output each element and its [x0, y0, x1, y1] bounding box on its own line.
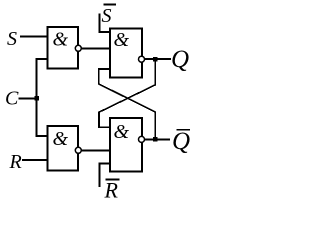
svg-text:&: &: [114, 29, 130, 51]
output bubble of G2: [75, 147, 81, 153]
output bubble of G1: [75, 45, 81, 51]
junction dot C net: [34, 96, 39, 101]
wire G4 output to Q-bar: [145, 138, 170, 140]
wire G2 output to G4 input: [82, 149, 111, 151]
wire C net vertical with branches to G1 and G2: [37, 59, 48, 136]
svg-text:&: &: [53, 128, 69, 150]
svg-text:Q: Q: [172, 128, 190, 155]
wire feedback Q to G4 input (cross): [99, 59, 155, 127]
wire G1 output to G3 input: [82, 47, 111, 49]
svg-text:R: R: [9, 151, 22, 173]
svg-text:S: S: [102, 5, 112, 27]
svg-text:S: S: [7, 28, 17, 50]
wire R input to G2: [22, 159, 48, 161]
svg-text:C: C: [5, 88, 19, 110]
NAND gate G1 (top-left) body: [48, 27, 79, 69]
wire S-bar stub into G3: [99, 14, 110, 33]
svg-text:R: R: [104, 178, 119, 202]
wire G3 output to Q: [145, 58, 171, 60]
output bubble of G3: [139, 56, 145, 62]
svg-text:&: &: [53, 29, 69, 51]
NAND gate G4 (bottom-right) body: [110, 118, 142, 172]
wire S input to G1: [20, 36, 48, 38]
output bubble of G4: [139, 136, 145, 142]
wire C label to junction: [19, 97, 37, 99]
NAND gate G2 (bottom-left) body: [48, 126, 79, 171]
svg-text:Q: Q: [171, 46, 189, 73]
junction dot Q net: [153, 57, 158, 62]
svg-text:&: &: [114, 121, 130, 143]
wire R-bar stub into G4: [99, 164, 110, 187]
wire feedback Q-bar to G3 input (cross): [99, 69, 155, 139]
junction dot Q-bar net: [153, 137, 158, 142]
NAND gate G3 (top-right) body: [110, 29, 142, 78]
